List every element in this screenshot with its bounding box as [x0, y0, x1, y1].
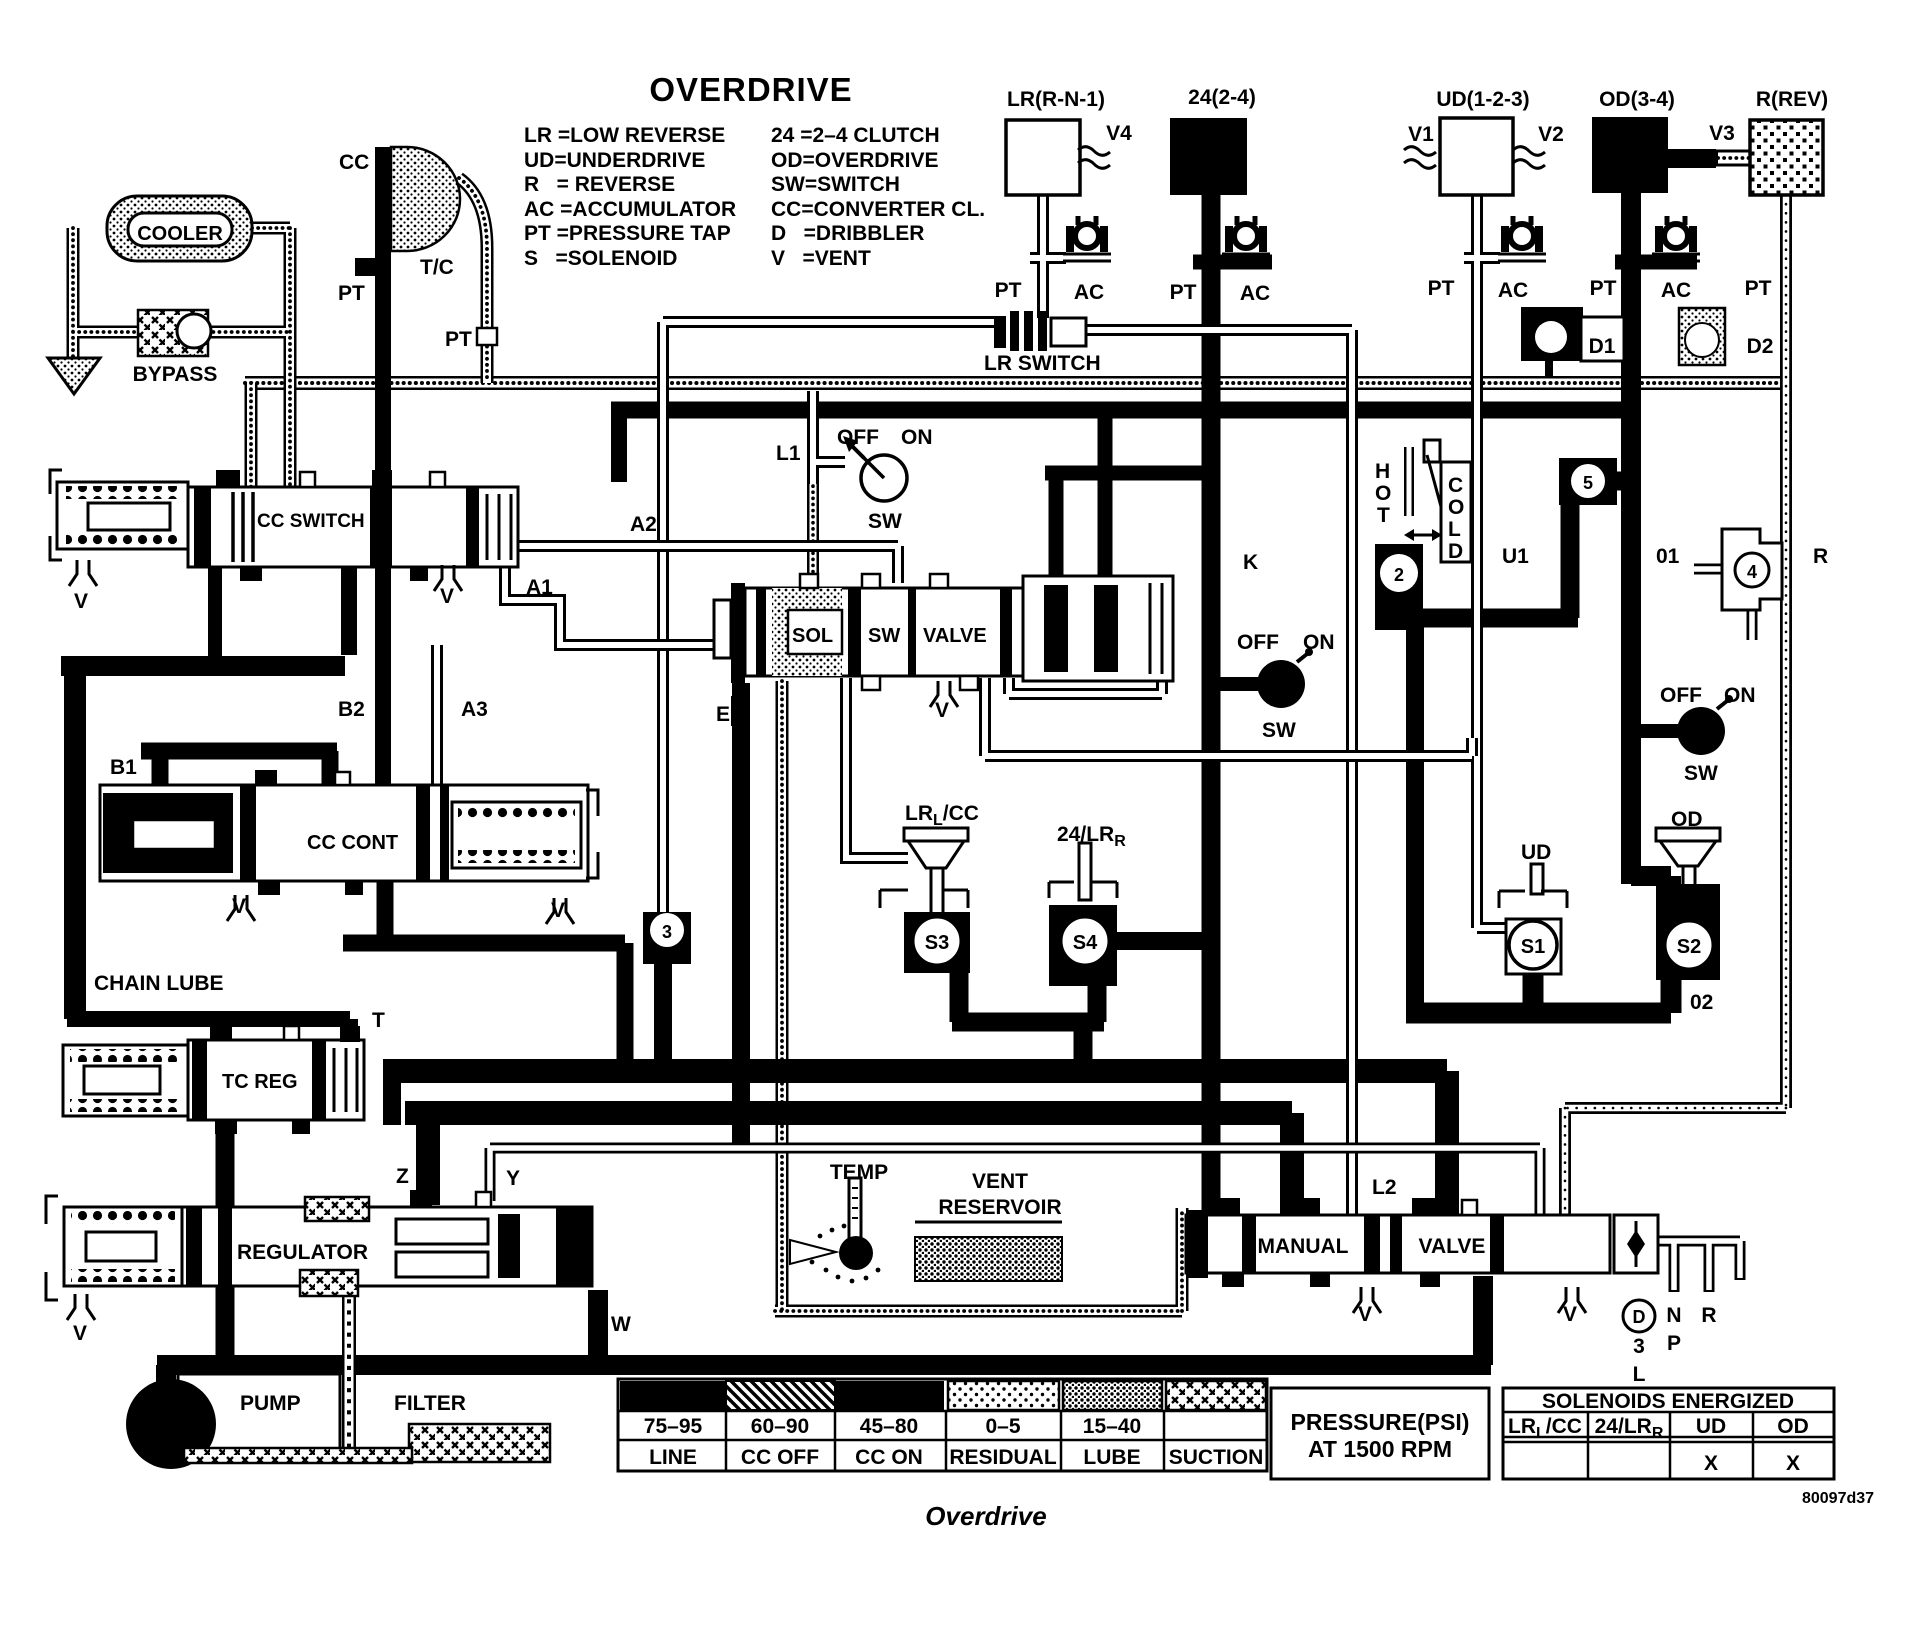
valve REGULATOR body: [182, 1190, 592, 1296]
svg-text:V: V: [551, 899, 565, 922]
vent V4 squiggle: [1078, 147, 1110, 169]
temperature sensor TEMP: [790, 1178, 880, 1283]
svg-text:4: 4: [1747, 562, 1757, 582]
svg-text:SW: SW: [868, 625, 900, 647]
wire pump suction riser overpass: [342, 1268, 356, 1452]
dribbler D1: [1521, 307, 1624, 361]
wire node3 lower drop: [654, 960, 672, 1079]
vent V1 squiggle: [1404, 147, 1436, 169]
bypass arrow: [48, 358, 100, 394]
svg-text:AC: AC: [1661, 279, 1691, 302]
svg-text:OFF: OFF: [1237, 631, 1279, 654]
switch SW K filled: [1257, 648, 1313, 708]
wire 02 header under S1 S2: [1406, 972, 1671, 1013]
clutch R(REV): [1750, 120, 1823, 195]
svg-text:PT: PT: [1170, 281, 1197, 304]
solenoid S4: [1049, 843, 1117, 986]
svg-text:24 =2–4 CLUTCH: 24 =2–4 CLUTCH: [771, 124, 940, 147]
svg-text:AC: AC: [1074, 281, 1104, 304]
svg-text:BYPASS: BYPASS: [133, 363, 218, 386]
wire L1 channel with switch branch: [813, 391, 845, 484]
svg-text:PT: PT: [1745, 277, 1772, 300]
solenoid S3 with funnel: [880, 828, 970, 973]
wire UD clutch channel U1 down to S1: [1464, 195, 1506, 928]
wire bundle line A y1071: [384, 1071, 1447, 1218]
wire A2 channel: [505, 546, 898, 583]
vent V under CC SWITCH right: [434, 565, 462, 591]
wire OD accumulator crossbar: [1615, 255, 1697, 270]
svg-text:Z: Z: [396, 1165, 409, 1188]
svg-text:D =DRIBBLER: D =DRIBBLER: [771, 222, 924, 245]
svg-text:S4: S4: [1073, 932, 1098, 954]
svg-text:PUMP: PUMP: [240, 1392, 301, 1415]
wire K switch stub: [1219, 677, 1258, 691]
svg-text:ON: ON: [901, 426, 933, 449]
svg-text:FILTER: FILTER: [394, 1392, 466, 1415]
svg-text:SOLENOIDS ENERGIZED: SOLENOIDS ENERGIZED: [1542, 1390, 1794, 1413]
svg-text:VENT: VENT: [972, 1170, 1028, 1193]
suction strip under pump: [184, 1448, 412, 1463]
svg-text:A2: A2: [630, 513, 657, 536]
svg-text:R(REV): R(REV): [1756, 88, 1828, 111]
svg-text:PT: PT: [995, 279, 1022, 302]
legend abbreviation list: [524, 124, 985, 270]
wire B1 loop: [141, 751, 337, 800]
svg-text:V: V: [1563, 1303, 1577, 1326]
wire loop under solenoid valve y756: [985, 678, 1472, 756]
solenoid assembly SOL SW VALVE: [714, 574, 1023, 726]
svg-text:2: 2: [1394, 565, 1404, 585]
PT and AC labels top row: [995, 277, 1774, 358]
svg-text:OD: OD: [1777, 1415, 1809, 1438]
svg-text:OD: OD: [1671, 808, 1703, 831]
legend pressure pattern table: [618, 1379, 1267, 1471]
svg-text:15–40: 15–40: [1083, 1415, 1141, 1438]
svg-text:O: O: [1375, 482, 1391, 505]
svg-text:AC: AC: [1498, 279, 1528, 302]
svg-text:UD=UNDERDRIVE: UD=UNDERDRIVE: [524, 149, 705, 172]
wire node5 link to thermostat: [1404, 481, 1626, 618]
wire CC / B2 main vertical: [375, 147, 391, 790]
wire chain lube left vertical: [64, 658, 86, 1019]
svg-text:RESERVOIR: RESERVOIR: [938, 1196, 1061, 1219]
svg-text:3: 3: [662, 922, 672, 942]
svg-text:B2: B2: [338, 698, 365, 721]
svg-text:X: X: [1704, 1452, 1718, 1475]
svg-text:UD(1-2-3): UD(1-2-3): [1436, 88, 1529, 111]
svg-text:T: T: [372, 1009, 385, 1032]
wire D1 stub: [1545, 361, 1553, 378]
svg-text:V: V: [440, 585, 454, 608]
wire OD to R black connector: [1664, 149, 1716, 168]
svg-text:OD(3-4): OD(3-4): [1599, 88, 1675, 111]
svg-text:3: 3: [1633, 1335, 1645, 1358]
svg-text:V =VENT: V =VENT: [771, 247, 871, 270]
check ball box right of manual valve: [1614, 1215, 1658, 1273]
svg-text:CC SWITCH: CC SWITCH: [257, 511, 365, 532]
node 4: [1722, 529, 1782, 610]
wire 24(2-4) K vertical: [1202, 195, 1221, 1218]
accumulator AC for UD: [1498, 216, 1546, 261]
top clutch labels: [1007, 86, 1828, 146]
svg-text:45–80: 45–80: [860, 1415, 918, 1438]
svg-text:Y: Y: [506, 1167, 520, 1190]
svg-text:N: N: [1666, 1304, 1681, 1327]
wire inner loop under solenoid valve y694: [1009, 678, 1162, 694]
torque converter T/C dome: [391, 147, 460, 251]
vent V under CC SWITCH left: [69, 560, 97, 586]
svg-text:S1: S1: [1521, 936, 1545, 958]
wire L1 stippled stub into SOL: [807, 480, 819, 585]
svg-text:V: V: [74, 590, 88, 613]
svg-text:P: P: [1667, 1332, 1681, 1355]
clutch OD(3-4): [1592, 117, 1668, 193]
wire E stippled drop / vent reservoir wall: [775, 681, 1182, 1311]
svg-text:SW: SW: [1684, 762, 1718, 785]
vent V under manual valve left: [1353, 1287, 1381, 1313]
wire LR clutch drop to LR SWITCH: [1030, 195, 1066, 318]
svg-text:S3: S3: [925, 932, 949, 954]
wire bundle line B y1113: [405, 1113, 1292, 1218]
bypass ball valve: [138, 310, 211, 356]
wire converter lube main stippled line: [245, 376, 1786, 390]
svg-text:D2: D2: [1747, 335, 1774, 358]
svg-text:LRL/CC: LRL/CC: [905, 802, 979, 829]
svg-text:COOLER: COOLER: [137, 223, 223, 245]
svg-text:R = REVERSE: R = REVERSE: [524, 173, 675, 196]
wire cooler left drop to bypass arrow stippled: [73, 228, 290, 505]
svg-text:X: X: [1786, 1452, 1800, 1475]
pressure table text: [644, 1415, 1263, 1469]
spring CC CONT right: [452, 790, 598, 878]
svg-text:60–90: 60–90: [751, 1415, 809, 1438]
svg-text:L1: L1: [776, 442, 801, 465]
solenoids energized table: [1503, 1388, 1834, 1479]
svg-text:VALVE: VALVE: [923, 625, 987, 647]
svg-text:R: R: [1701, 1304, 1716, 1327]
svg-text:OD=OVERDRIVE: OD=OVERDRIVE: [771, 149, 938, 172]
vent V under valve: [930, 681, 958, 707]
svg-text:UD: UD: [1696, 1415, 1726, 1438]
wire CC CONT bottom S path: [343, 872, 625, 1079]
svg-text:02: 02: [1690, 991, 1713, 1014]
wire pump suction x-hatch riser: [342, 1268, 356, 1452]
wire W drop from regulator: [588, 1290, 608, 1360]
wire bundle left joiner: [383, 1059, 401, 1125]
svg-text:W: W: [611, 1313, 631, 1336]
wire 24 accumulator crossbar: [1193, 255, 1272, 270]
svg-text:ON: ON: [1303, 631, 1335, 654]
accumulator AC for 24: [1222, 216, 1270, 261]
svg-text:E: E: [716, 703, 730, 726]
valve CC SWITCH body: [188, 470, 518, 581]
clutch UD(1-2-3): [1440, 118, 1513, 195]
svg-text:PT =PRESSURE TAP: PT =PRESSURE TAP: [524, 222, 731, 245]
svg-text:RESIDUAL: RESIDUAL: [949, 1446, 1057, 1469]
wire chain lube lower horizontal to T: [67, 1019, 350, 1048]
svg-text:A1: A1: [526, 576, 553, 599]
wire E line thick drop: [732, 683, 750, 1148]
svg-text:CC OFF: CC OFF: [741, 1446, 819, 1469]
svg-text:CHAIN LUBE: CHAIN LUBE: [94, 972, 224, 995]
svg-text:VALVE: VALVE: [1419, 1235, 1486, 1258]
wire parallel line left of B2: [341, 566, 357, 655]
wire main pump line bottom: [157, 1276, 1491, 1388]
svg-text:SW=SWITCH: SW=SWITCH: [771, 173, 900, 196]
svg-text:UD: UD: [1521, 841, 1551, 864]
svg-text:SOL: SOL: [792, 625, 833, 647]
vent V under manual valve right: [1558, 1287, 1586, 1313]
svg-text:C: C: [1448, 474, 1463, 497]
svg-text:ON: ON: [1724, 684, 1756, 707]
svg-text:LR(R-N-1): LR(R-N-1): [1007, 88, 1105, 111]
vent V2 squiggle: [1513, 147, 1545, 169]
svg-text:0–5: 0–5: [985, 1415, 1020, 1438]
pump PUMP: [126, 1374, 340, 1469]
switch SW OD filled: [1677, 695, 1733, 755]
valve CC CONT: [100, 770, 588, 895]
shifter D circle: [1623, 1300, 1655, 1332]
accumulator AC for LR: [1063, 216, 1111, 261]
pressure tap PT notch on T/C wall: [477, 328, 497, 345]
svg-text:V: V: [935, 699, 949, 722]
valve REGULATOR spring box: [46, 1196, 182, 1300]
valve TC REG body: [188, 1024, 364, 1134]
svg-text:V: V: [232, 895, 246, 918]
svg-text:CC CONT: CC CONT: [307, 832, 398, 854]
dribbler D2: [1679, 308, 1725, 365]
wire CC SWITCH bottom left drop: [208, 560, 222, 670]
svg-text:SW: SW: [868, 510, 902, 533]
clutch 24(2-4): [1170, 118, 1247, 195]
svg-text:PRESSURE(PSI): PRESSURE(PSI): [1291, 1409, 1470, 1435]
svg-text:D1: D1: [1589, 335, 1616, 358]
pressure note box: [1271, 1388, 1489, 1479]
svg-text:V3: V3: [1709, 122, 1735, 145]
svg-text:TEMP: TEMP: [830, 1161, 888, 1184]
svg-text:LINE: LINE: [649, 1446, 697, 1469]
svg-text:AC =ACCUMULATOR: AC =ACCUMULATOR: [524, 198, 736, 221]
wire S3 funnel drop: [934, 900, 940, 915]
svg-text:S =SOLENOID: S =SOLENOID: [524, 247, 677, 270]
wire R residual dotted line down right side: [1565, 195, 1786, 1215]
svg-text:PT: PT: [1590, 277, 1617, 300]
wire OD to R(REV) stippled link: [1714, 150, 1752, 167]
wire A1 channel: [505, 562, 733, 645]
wire LR SWITCH left channel + 3 line: [663, 322, 1000, 916]
vent V under CC CONT right: [546, 898, 574, 924]
valve TC REG spring box: [63, 1045, 188, 1116]
svg-text:T/C: T/C: [420, 256, 454, 279]
wire OD(3-4) vertical: [1631, 193, 1671, 985]
valve CC SWITCH spring box: [50, 470, 188, 560]
valve MANUAL VALVE body: [1186, 1198, 1610, 1287]
valve spool right of VALVE: [1023, 576, 1173, 681]
clutch LR(R-N-1): [1006, 120, 1080, 195]
node 5: [1559, 458, 1617, 505]
svg-text:D: D: [1448, 540, 1463, 563]
svg-text:V: V: [73, 1322, 87, 1345]
svg-text:D: D: [1633, 1307, 1646, 1327]
svg-text:LR =LOW REVERSE: LR =LOW REVERSE: [524, 124, 725, 147]
wire S3 feed channel from valve: [846, 678, 908, 858]
svg-text:L: L: [1633, 1363, 1646, 1386]
svg-text:SUCTION: SUCTION: [1169, 1446, 1264, 1469]
svg-text:R: R: [1813, 545, 1828, 568]
svg-text:L: L: [1448, 518, 1461, 541]
svg-text:H: H: [1375, 460, 1390, 483]
wire S3 S4 bottom header: [952, 970, 1104, 1079]
svg-text:80097d37: 80097d37: [1802, 1490, 1874, 1507]
svg-text:V4: V4: [1106, 122, 1132, 145]
svg-text:AC: AC: [1240, 282, 1270, 305]
svg-text:PT: PT: [445, 328, 472, 351]
svg-text:75–95: 75–95: [644, 1415, 703, 1438]
svg-text:U1: U1: [1502, 545, 1529, 568]
valve LR SWITCH: [994, 311, 1086, 351]
svg-text:01: 01: [1656, 545, 1680, 568]
svg-text:LRL/CC: LRL/CC: [1508, 1415, 1582, 1442]
svg-text:PT: PT: [1428, 277, 1455, 300]
svg-text:CC ON: CC ON: [855, 1446, 923, 1469]
svg-text:L2: L2: [1372, 1176, 1397, 1199]
svg-text:PT: PT: [338, 282, 365, 305]
wire chain lube horizontal upper: [61, 656, 345, 676]
svg-text:REGULATOR: REGULATOR: [237, 1241, 368, 1264]
solenoid S2 with funnel: [1656, 828, 1720, 980]
cooler COOLER: [107, 196, 252, 261]
wire long line pressure horizontal y410: [611, 402, 1639, 419]
wire S4 to 24 line link: [1113, 932, 1205, 950]
svg-text:OVERDRIVE: OVERDRIVE: [649, 71, 852, 108]
wire vent reservoir top rail: [490, 1148, 1540, 1218]
svg-text:MANUAL: MANUAL: [1258, 1235, 1349, 1258]
vent V under CC CONT left: [227, 895, 255, 921]
svg-text:OFF: OFF: [837, 426, 879, 449]
switch SW L1 with arrow: [843, 436, 907, 501]
svg-text:B1: B1: [110, 756, 137, 779]
svg-text:TC REG: TC REG: [222, 1071, 298, 1093]
svg-text:SW: SW: [1262, 719, 1296, 742]
thermostat HOT COLD: [1404, 440, 1471, 562]
svg-text:S2: S2: [1677, 936, 1701, 958]
svg-text:CC: CC: [339, 151, 369, 174]
pressure tap PT tick on CC line: [355, 258, 381, 276]
svg-text:Overdrive: Overdrive: [925, 1501, 1046, 1531]
svg-text:V1: V1: [1408, 123, 1434, 146]
svg-text:5: 5: [1583, 473, 1593, 493]
svg-text:LR SWITCH: LR SWITCH: [984, 352, 1101, 375]
solenoid S1: [1499, 864, 1567, 974]
wire valve feed stubs above SOL assembly: [1045, 410, 1203, 583]
node 3: [643, 912, 691, 964]
svg-text:V: V: [1358, 1303, 1372, 1326]
wire A3 channel: [431, 645, 443, 798]
svg-text:K: K: [1243, 551, 1258, 574]
accumulator AC for OD: [1652, 216, 1700, 261]
filter FILTER: [409, 1424, 550, 1462]
svg-text:OFF: OFF: [1660, 684, 1702, 707]
wire TC REG to regulator vertical: [216, 1116, 235, 1360]
svg-text:A3: A3: [461, 698, 488, 721]
wire LR SWITCH right channel + L2 drop: [1086, 330, 1352, 1218]
svg-text:O: O: [1448, 496, 1464, 519]
wire manual valve right channel with gear gate: [1658, 1241, 1740, 1292]
svg-text:CC=CONVERTER CL.: CC=CONVERTER CL.: [771, 198, 985, 221]
svg-text:T: T: [1377, 504, 1390, 527]
svg-text:AT 1500 RPM: AT 1500 RPM: [1308, 1436, 1452, 1462]
node 2 black box with circle: [1375, 544, 1423, 630]
wire y410 left elbow down: [611, 410, 627, 482]
wire node4 stub: [1694, 569, 1752, 640]
svg-text:24(2-4): 24(2-4): [1188, 86, 1256, 109]
wire thermostat 2 drop: [1406, 622, 1424, 1013]
svg-text:LUBE: LUBE: [1083, 1446, 1140, 1469]
svg-text:V2: V2: [1538, 123, 1564, 146]
vent V under regulator: [67, 1294, 95, 1320]
wire T/C right wall stippled: [459, 178, 487, 383]
vent reservoir inner tank: [915, 1222, 1062, 1281]
wire OD switch stub: [1639, 724, 1679, 738]
